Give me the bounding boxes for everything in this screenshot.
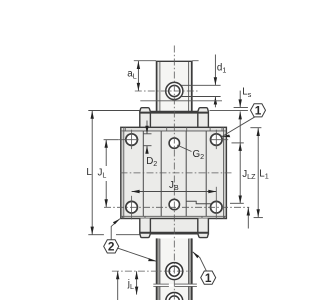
svg-text:1: 1 (255, 104, 262, 118)
svg-text:1: 1 (205, 271, 212, 285)
svg-text:L: L (86, 167, 92, 178)
svg-text:2: 2 (108, 240, 115, 254)
